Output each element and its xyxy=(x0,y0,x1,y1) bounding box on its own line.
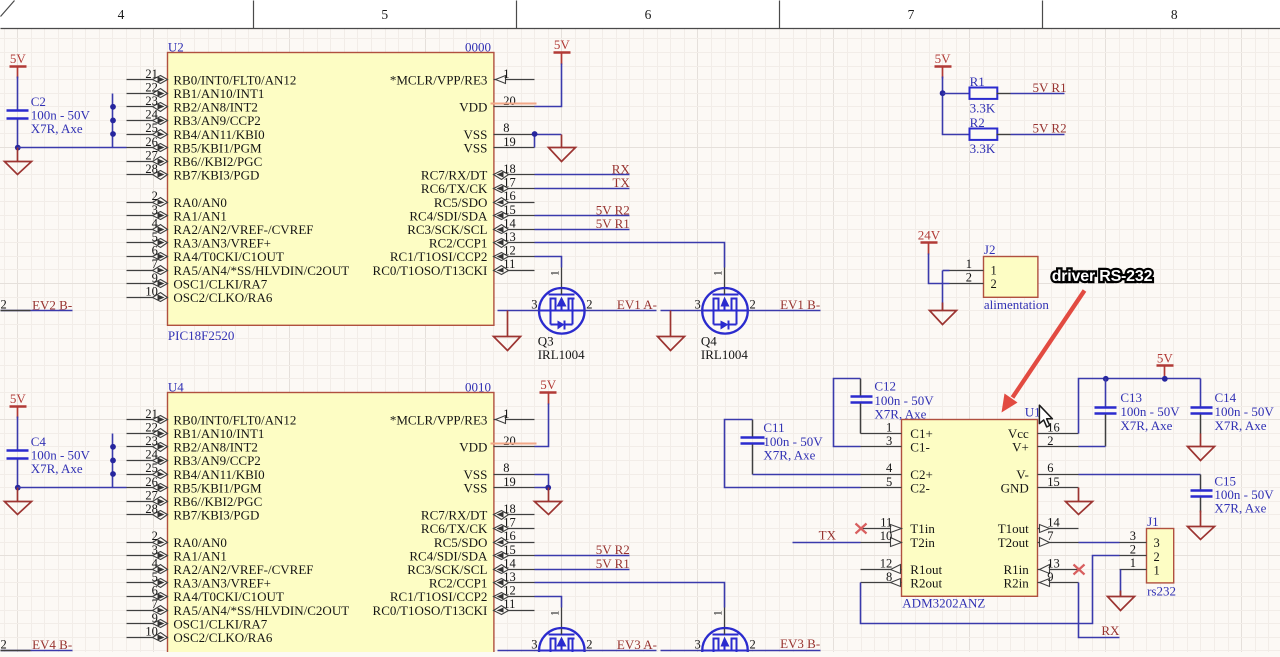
wire xyxy=(535,174,630,176)
svg-text:4: 4 xyxy=(152,216,159,230)
C4 labels xyxy=(31,434,91,476)
wire xyxy=(1079,542,1120,544)
ground xyxy=(549,135,576,162)
wire xyxy=(943,77,969,135)
svg-text:15: 15 xyxy=(1047,475,1060,489)
svg-text:5V: 5V xyxy=(10,51,27,66)
wire xyxy=(748,650,821,652)
svg-text:1: 1 xyxy=(966,257,972,271)
svg-text:1: 1 xyxy=(713,270,725,276)
connector J2 body xyxy=(984,257,1038,298)
ground xyxy=(1188,434,1215,461)
wire xyxy=(535,583,725,608)
svg-text:18: 18 xyxy=(503,502,516,516)
svg-text:alimentation: alimentation xyxy=(984,297,1049,312)
svg-text:2: 2 xyxy=(1047,434,1053,448)
U2 right pins xyxy=(373,67,535,278)
svg-text:22: 22 xyxy=(145,80,158,94)
svg-text:5V: 5V xyxy=(1157,350,1174,365)
svg-text:OSC2/CLKO/RA6: OSC2/CLKO/RA6 xyxy=(173,630,272,645)
gate pin 1 xyxy=(549,608,561,629)
svg-text:rs232: rs232 xyxy=(1147,583,1176,598)
svg-text:VSS: VSS xyxy=(464,480,488,495)
svg-text:2: 2 xyxy=(1154,550,1160,564)
C15 pin lead xyxy=(1200,498,1202,513)
wire xyxy=(535,257,562,268)
svg-text:3.3K: 3.3K xyxy=(970,141,996,156)
wire xyxy=(498,310,540,312)
svg-text:24: 24 xyxy=(145,448,158,462)
R2 labels xyxy=(970,115,996,156)
svg-text:EV4 B-: EV4 B- xyxy=(32,637,72,652)
svg-text:24V: 24V xyxy=(918,228,941,243)
svg-text:3: 3 xyxy=(152,543,158,557)
junction xyxy=(1103,376,1109,382)
svg-text:5V: 5V xyxy=(935,51,952,66)
junction xyxy=(110,131,116,137)
capacitor C2 xyxy=(7,111,29,119)
svg-text:1: 1 xyxy=(1130,556,1136,570)
resistor R2 xyxy=(970,129,998,140)
svg-text:8: 8 xyxy=(503,461,509,475)
wire xyxy=(1011,93,1065,95)
svg-text:C2-: C2- xyxy=(910,480,930,495)
svg-text:driver RS-232: driver RS-232 xyxy=(1052,268,1153,285)
svg-text:6: 6 xyxy=(152,584,158,598)
wire xyxy=(18,487,127,489)
svg-text:1: 1 xyxy=(1154,563,1160,577)
R1 labels xyxy=(970,74,996,115)
svg-text:27: 27 xyxy=(145,148,158,162)
J1 pin 1 xyxy=(1120,556,1160,577)
VDD pin highlight xyxy=(491,103,537,105)
svg-text:2: 2 xyxy=(152,529,158,543)
wire xyxy=(861,556,1120,624)
svg-text:R2: R2 xyxy=(970,115,985,130)
svg-text:2: 2 xyxy=(750,298,756,312)
svg-text:9: 9 xyxy=(152,271,158,285)
C13 labels xyxy=(1120,390,1180,433)
wire xyxy=(535,597,562,608)
ground xyxy=(658,311,685,351)
power port 5V xyxy=(10,51,27,79)
wire xyxy=(661,650,703,652)
wire xyxy=(535,215,630,217)
svg-text:RB7/KBI3/PGD: RB7/KBI3/PGD xyxy=(173,168,259,183)
svg-text:V+: V+ xyxy=(1012,440,1029,455)
svg-text:5V: 5V xyxy=(554,37,571,52)
svg-text:OSC2/CLKO/RA6: OSC2/CLKO/RA6 xyxy=(173,290,272,305)
svg-text:23: 23 xyxy=(145,434,158,448)
capacitor C11 xyxy=(741,438,765,444)
ground xyxy=(1066,488,1093,515)
svg-text:4: 4 xyxy=(152,556,159,570)
svg-text:28: 28 xyxy=(145,502,158,516)
wire xyxy=(498,650,540,652)
wire xyxy=(748,310,821,312)
svg-text:5V: 5V xyxy=(10,391,27,406)
wire xyxy=(535,64,562,107)
svg-text:5V R1: 5V R1 xyxy=(1033,80,1067,95)
svg-text:17: 17 xyxy=(503,176,516,190)
wire xyxy=(535,134,562,136)
wire xyxy=(725,420,861,488)
svg-text:5: 5 xyxy=(152,230,158,244)
svg-text:19: 19 xyxy=(503,475,516,489)
gate pin 1 xyxy=(549,268,561,289)
svg-text:5V: 5V xyxy=(540,377,557,392)
svg-text:1: 1 xyxy=(503,407,509,421)
U1 left pins xyxy=(861,420,943,590)
svg-text:R1: R1 xyxy=(970,74,985,89)
power port 5V xyxy=(935,51,952,79)
svg-text:14: 14 xyxy=(1047,516,1060,530)
transistor Q5 xyxy=(539,628,585,657)
svg-text:10: 10 xyxy=(880,529,893,543)
svg-text:5: 5 xyxy=(152,570,158,584)
svg-text:20: 20 xyxy=(503,94,516,108)
wire xyxy=(1105,379,1107,407)
wire xyxy=(1200,379,1202,407)
junction xyxy=(110,458,116,464)
svg-text:VSS: VSS xyxy=(464,140,488,155)
svg-text:X7R, Axe: X7R, Axe xyxy=(1215,418,1267,433)
gate pin 1 xyxy=(713,268,725,289)
svg-text:3: 3 xyxy=(694,298,700,312)
ground xyxy=(930,303,957,325)
svg-text:21: 21 xyxy=(145,407,158,421)
svg-text:3.3K: 3.3K xyxy=(970,100,996,115)
no-ERC marker xyxy=(856,524,867,534)
svg-text:2: 2 xyxy=(586,298,592,312)
capacitor C4 xyxy=(7,451,29,459)
junction xyxy=(545,485,551,491)
svg-text:4: 4 xyxy=(886,461,893,475)
C12 labels xyxy=(874,379,934,422)
wire xyxy=(112,434,114,488)
resistor R1 xyxy=(970,88,998,99)
svg-text:RB7/KBI3/PGD: RB7/KBI3/PGD xyxy=(173,508,259,523)
svg-text:16: 16 xyxy=(503,529,516,543)
gate pin 1 xyxy=(713,608,725,629)
svg-text:VDD: VDD xyxy=(459,100,487,115)
wire xyxy=(535,404,549,447)
wire xyxy=(535,188,630,190)
sheet border ruler xyxy=(0,0,1280,29)
svg-text:22: 22 xyxy=(145,420,158,434)
svg-text:13: 13 xyxy=(503,570,516,584)
ground xyxy=(5,148,32,175)
svg-text:IRL1004: IRL1004 xyxy=(701,347,748,362)
svg-text:26: 26 xyxy=(145,475,158,489)
wire xyxy=(585,650,657,652)
svg-text:TX: TX xyxy=(819,528,837,543)
svg-text:0000: 0000 xyxy=(465,40,491,55)
junction xyxy=(110,118,116,124)
svg-text:2: 2 xyxy=(991,277,997,291)
svg-text:9: 9 xyxy=(1047,570,1053,584)
svg-text:23: 23 xyxy=(145,94,158,108)
svg-text:12: 12 xyxy=(880,556,893,570)
power port 24V xyxy=(918,228,941,255)
wire xyxy=(112,94,114,148)
wire xyxy=(1079,379,1201,434)
junction xyxy=(110,444,116,450)
svg-text:*MCLR/VPP/RE3: *MCLR/VPP/RE3 xyxy=(390,72,488,87)
ground xyxy=(535,488,562,515)
svg-text:11: 11 xyxy=(503,597,515,611)
svg-text:17: 17 xyxy=(503,516,516,530)
wire xyxy=(18,147,127,149)
wire xyxy=(535,243,725,268)
no-ERC marker xyxy=(1074,565,1085,575)
junction xyxy=(15,485,21,491)
U1 right pins xyxy=(998,420,1079,590)
wire xyxy=(585,310,657,312)
power port 5V xyxy=(554,37,571,64)
wire xyxy=(535,555,630,557)
svg-text:PIC18F2520: PIC18F2520 xyxy=(168,328,234,343)
off-sheet pin 2 xyxy=(1,310,31,312)
svg-text:2: 2 xyxy=(1130,543,1136,557)
wire xyxy=(943,93,969,95)
U4 left pins xyxy=(127,407,350,645)
svg-text:EV2 B-: EV2 B- xyxy=(32,297,72,312)
VDD pin highlight xyxy=(491,443,537,445)
svg-text:7: 7 xyxy=(908,7,915,22)
junction xyxy=(15,145,21,151)
annotation red arrow xyxy=(1002,291,1085,413)
C14 labels xyxy=(1215,390,1275,433)
svg-text:X7R, Axe: X7R, Axe xyxy=(31,461,83,476)
C11 pin leads xyxy=(752,420,754,437)
junction xyxy=(1162,376,1168,382)
svg-text:3: 3 xyxy=(694,638,700,652)
svg-text:IRL1004: IRL1004 xyxy=(538,347,585,362)
svg-text:R2out: R2out xyxy=(910,576,942,591)
svg-text:8: 8 xyxy=(1171,7,1178,22)
svg-text:5: 5 xyxy=(886,475,892,489)
capacitor C14 xyxy=(1191,408,1213,414)
wire xyxy=(942,271,944,311)
ground xyxy=(5,488,32,515)
svg-text:6: 6 xyxy=(645,7,652,22)
svg-text:3: 3 xyxy=(531,298,537,312)
wire xyxy=(661,310,703,312)
svg-text:J1: J1 xyxy=(1147,514,1159,529)
svg-text:2: 2 xyxy=(750,638,756,652)
svg-text:X7R, Axe: X7R, Axe xyxy=(763,447,815,462)
svg-text:EV1 B-: EV1 B- xyxy=(780,297,820,312)
svg-text:6: 6 xyxy=(1047,461,1053,475)
svg-text:X7R, Axe: X7R, Axe xyxy=(1214,501,1266,516)
C13 pin lead xyxy=(1105,415,1107,447)
svg-text:1: 1 xyxy=(549,270,561,276)
C14 pin lead xyxy=(1200,415,1202,434)
junction xyxy=(532,131,538,137)
power port 5V xyxy=(1157,350,1174,378)
wire xyxy=(1079,446,1106,448)
Q4 labels xyxy=(701,333,748,362)
svg-text:3: 3 xyxy=(152,203,158,217)
svg-text:7: 7 xyxy=(152,597,158,611)
wire xyxy=(17,120,19,148)
svg-text:3: 3 xyxy=(531,638,537,652)
svg-text:C12: C12 xyxy=(874,379,896,394)
svg-text:C13: C13 xyxy=(1120,390,1142,405)
wire xyxy=(793,542,861,544)
svg-text:R2in: R2in xyxy=(1004,576,1030,591)
svg-text:7: 7 xyxy=(1047,529,1053,543)
junction xyxy=(110,471,116,477)
svg-text:X7R, Axe: X7R, Axe xyxy=(1120,418,1172,433)
svg-text:20: 20 xyxy=(503,434,516,448)
svg-text:19: 19 xyxy=(503,135,516,149)
svg-text:24: 24 xyxy=(145,108,158,122)
svg-text:2: 2 xyxy=(966,271,972,285)
svg-text:1: 1 xyxy=(549,610,561,616)
svg-text:25: 25 xyxy=(145,121,158,135)
svg-text:J2: J2 xyxy=(984,242,996,257)
svg-text:ADM3202ANZ: ADM3202ANZ xyxy=(902,596,985,611)
svg-text:T2in: T2in xyxy=(910,535,935,550)
svg-text:2: 2 xyxy=(1,638,7,652)
svg-text:X7R, Axe: X7R, Axe xyxy=(874,406,926,421)
svg-text:27: 27 xyxy=(145,488,158,502)
svg-text:14: 14 xyxy=(503,556,516,570)
wire xyxy=(1079,474,1201,476)
IC U1 ADM3202ANZ body xyxy=(902,420,1038,597)
svg-text:13: 13 xyxy=(1047,556,1060,570)
wire xyxy=(753,474,861,476)
svg-text:GND: GND xyxy=(1001,480,1029,495)
svg-text:7: 7 xyxy=(152,257,158,271)
ground xyxy=(1188,511,1215,540)
svg-text:1: 1 xyxy=(886,420,892,434)
svg-text:RC0/T1OSO/T13CKI: RC0/T1OSO/T13CKI xyxy=(373,263,488,278)
wire xyxy=(17,460,19,488)
transistor Q6 xyxy=(702,628,748,657)
svg-text:13: 13 xyxy=(503,230,516,244)
connector J1 body xyxy=(1147,529,1174,583)
svg-text:X7R, Axe: X7R, Axe xyxy=(31,121,83,136)
svg-text:U1: U1 xyxy=(1025,404,1041,419)
wire xyxy=(1079,583,1120,638)
svg-text:11: 11 xyxy=(503,257,515,271)
svg-text:12: 12 xyxy=(503,244,516,258)
transistor Q4 xyxy=(702,288,748,334)
svg-text:0010: 0010 xyxy=(465,380,491,395)
svg-text:9: 9 xyxy=(152,611,158,625)
svg-text:U4: U4 xyxy=(168,380,184,395)
U2 left pins xyxy=(127,67,350,305)
svg-text:3: 3 xyxy=(1130,529,1136,543)
power port 5V xyxy=(10,391,27,419)
svg-text:2: 2 xyxy=(586,638,592,652)
svg-text:T2out: T2out xyxy=(998,535,1029,550)
C15 labels xyxy=(1214,473,1274,515)
U4 right pins xyxy=(373,407,535,618)
svg-text:16: 16 xyxy=(503,189,516,203)
svg-text:12: 12 xyxy=(503,584,516,598)
svg-text:1: 1 xyxy=(713,610,725,616)
wire xyxy=(1011,134,1065,136)
svg-text:TX: TX xyxy=(612,175,630,190)
wire xyxy=(1120,570,1122,597)
svg-text:C1-: C1- xyxy=(910,440,930,455)
junction xyxy=(110,104,116,110)
wire xyxy=(535,569,630,571)
capacitor C12 xyxy=(851,397,873,403)
transistor Q3 xyxy=(539,288,585,334)
svg-text:25: 25 xyxy=(145,461,158,475)
wire xyxy=(943,270,950,272)
svg-text:18: 18 xyxy=(503,162,516,176)
svg-text:4: 4 xyxy=(118,7,125,22)
svg-text:15: 15 xyxy=(503,203,516,217)
svg-text:8: 8 xyxy=(503,121,509,135)
capacitor C13 xyxy=(1095,408,1117,414)
Q3 labels xyxy=(538,333,585,362)
svg-text:6: 6 xyxy=(152,244,158,258)
wire xyxy=(997,93,1011,95)
svg-text:26: 26 xyxy=(145,135,158,149)
ground xyxy=(1108,591,1135,611)
wire xyxy=(1,310,73,312)
J2 pin 2 xyxy=(950,271,997,292)
svg-text:5V R2: 5V R2 xyxy=(1033,121,1067,136)
svg-text:5: 5 xyxy=(381,7,388,22)
svg-text:RC0/T1OSO/T13CKI: RC0/T1OSO/T13CKI xyxy=(373,603,488,618)
wire xyxy=(997,134,1011,136)
svg-text:3: 3 xyxy=(1154,536,1160,550)
off-sheet pin 2 xyxy=(1,650,31,652)
J2 pin 1 xyxy=(950,257,997,278)
svg-text:EV1 A-: EV1 A- xyxy=(617,297,657,312)
svg-text:8: 8 xyxy=(886,570,892,584)
svg-text:*MCLR/VPP/RE3: *MCLR/VPP/RE3 xyxy=(390,412,488,427)
svg-text:C14: C14 xyxy=(1215,390,1237,405)
mouse cursor xyxy=(1039,405,1052,427)
C2 labels xyxy=(31,94,91,136)
wire xyxy=(1,650,73,652)
svg-text:5V R1: 5V R1 xyxy=(596,216,630,231)
power port 5V xyxy=(540,377,557,404)
IC U4 PIC18F2520 body xyxy=(168,393,494,657)
junction xyxy=(940,90,946,96)
svg-text:RX: RX xyxy=(1101,623,1120,638)
wire xyxy=(929,254,950,284)
C15 pin lead xyxy=(1200,475,1202,490)
svg-text:U2: U2 xyxy=(168,40,184,55)
svg-text:EV3 A-: EV3 A- xyxy=(617,637,657,652)
svg-text:VDD: VDD xyxy=(459,440,487,455)
svg-text:2: 2 xyxy=(152,189,158,203)
svg-text:14: 14 xyxy=(503,216,516,230)
svg-text:28: 28 xyxy=(145,162,158,176)
ground xyxy=(494,311,521,351)
svg-text:16: 16 xyxy=(1047,420,1060,434)
J1 pin 2 xyxy=(1120,543,1160,564)
svg-text:10: 10 xyxy=(145,284,158,298)
wire xyxy=(534,135,536,148)
wire xyxy=(17,77,19,111)
svg-text:1: 1 xyxy=(991,264,997,278)
capacitor C15 xyxy=(1191,491,1213,497)
wire xyxy=(535,475,549,488)
svg-text:15: 15 xyxy=(503,543,516,557)
svg-text:2: 2 xyxy=(1,298,7,312)
